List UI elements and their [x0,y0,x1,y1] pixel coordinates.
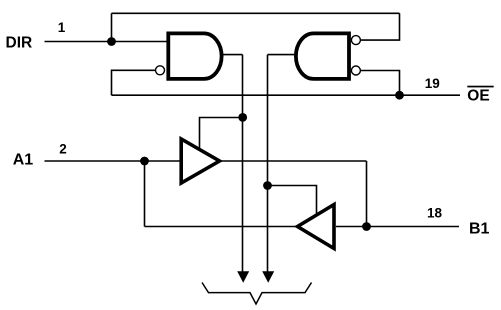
buffer U3 (A to B) [181,139,219,183]
bubble U2 bottom input [351,66,360,75]
arrow U2 enable down [262,271,274,283]
wire DIR lead [45,41,169,43]
wire OE up to U1 bubble [112,70,156,95]
wire U2 bottom bubble to OE line [361,71,400,96]
arrow U1 enable down [237,271,249,283]
wire U2 output vertical [267,55,269,273]
wire U1 output vertical [242,55,244,273]
wire U2 output [268,54,296,56]
svg-text:B1: B1 [469,221,490,238]
node U2 enable junction [263,181,272,190]
svg-text:2: 2 [59,142,67,157]
wire top horizontal [112,12,400,14]
bubble U2 top input [351,36,360,45]
label OE overline [467,86,493,88]
svg-text:OE: OE [467,88,489,105]
to-other-channels bracket [202,283,312,305]
node U1 enable junction [238,113,247,122]
wire enable to buffer U3 [200,118,243,151]
and-gate U2 (mirrored) [296,33,349,79]
wire A1 lead [45,160,182,162]
wire OE horizontal [112,94,461,96]
svg-text:DIR: DIR [6,34,33,51]
wire U3 output [220,160,367,162]
node DIR junction [107,37,116,46]
wire U1 output [222,54,243,56]
svg-text:1: 1 [58,20,66,35]
wire enable to buffer U4 [268,186,317,217]
buffer U4 (B to A) [298,205,335,249]
bubble U1 input [156,66,165,75]
svg-text:A1: A1 [13,151,34,168]
node OE junction [395,91,404,100]
wire top right down to U2 top bubble [361,13,400,40]
wire B1 lead [336,226,459,228]
svg-text:18: 18 [427,205,443,220]
svg-text:19: 19 [425,76,440,91]
and-gate U1 [168,33,221,79]
wire U4 output to A1 [145,226,298,228]
wire DIR junction up [111,13,113,41]
wire U3 output down to B1 [366,161,368,227]
node B1 junction [362,222,371,231]
wire A1 junction down [144,161,146,227]
node A1 junction [140,157,149,166]
